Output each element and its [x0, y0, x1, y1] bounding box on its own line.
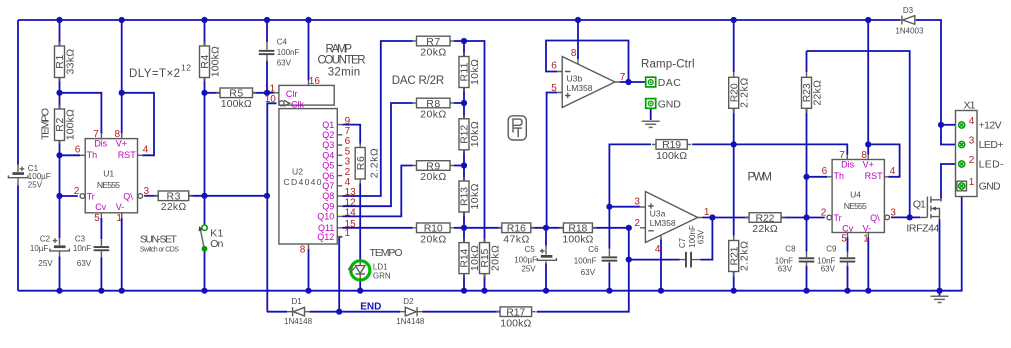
svg-text:6: 6 [822, 166, 828, 177]
svg-text:22kΩ: 22kΩ [752, 223, 778, 235]
svg-text:25V: 25V [521, 265, 536, 274]
svg-text:1N4148: 1N4148 [396, 317, 425, 326]
svg-text:100kΩ: 100kΩ [64, 109, 76, 140]
svg-text:100nF: 100nF [574, 257, 597, 266]
wire R23 feedback branch [806, 51, 808, 218]
resistor R8 [413, 98, 455, 121]
wire C8 branch [806, 218, 808, 291]
resistor R12 [459, 115, 481, 154]
wire U4 V- pin1 to rail [867, 238, 869, 291]
wire U3a pin4 to rail [660, 240, 662, 291]
svg-text:2: 2 [634, 218, 640, 229]
svg-text:8: 8 [571, 48, 577, 59]
svg-text:1: 1 [969, 177, 975, 188]
svg-text:20kΩ: 20kΩ [420, 47, 446, 59]
wire R19 right to R20/R21 node [692, 143, 734, 145]
timer U1 NE555 [74, 129, 150, 224]
svg-text:V-: V- [863, 223, 872, 233]
wire C9 U4 Cv pin5 [847, 238, 849, 291]
svg-text:63V: 63V [581, 268, 596, 277]
wire R3 right to bus [189, 195, 267, 197]
wire +12V top rail [18, 19, 900, 21]
svg-text:20kΩ: 20kΩ [420, 233, 446, 245]
svg-text:4: 4 [655, 244, 661, 255]
svg-text:C6: C6 [588, 245, 599, 254]
svg-text:Th: Th [87, 150, 98, 160]
wire R18 to U3a pin2 [592, 227, 628, 229]
wire U1 V+ pin8 from rail [121, 20, 123, 134]
svg-text:2: 2 [74, 186, 80, 197]
wire C5 branch [545, 228, 547, 291]
counter U2 CD4040 [265, 76, 338, 255]
wire R20 branch [733, 20, 735, 144]
svg-text:1N4003: 1N4003 [895, 27, 924, 36]
svg-text:2.2kΩ: 2.2kΩ [369, 148, 381, 178]
wire U3b output to DAC pad [620, 81, 646, 83]
capacitor C4 [259, 37, 300, 67]
svg-text:20kΩ: 20kΩ [420, 109, 446, 121]
svg-text:Q2: Q2 [322, 130, 334, 140]
wire U3b pin6 feedback [546, 41, 629, 83]
svg-text:PWM: PWM [748, 172, 773, 184]
wire U4 Q pin3 to gate node [891, 216, 920, 218]
svg-text:Ramp-Ctrl: Ramp-Ctrl [641, 59, 695, 71]
capacitor C9 [817, 244, 855, 273]
resistor R6 [355, 144, 381, 184]
svg-text:100kΩ: 100kΩ [562, 233, 593, 245]
wire U2 Clk feed from END bus [267, 103, 276, 311]
wire R7 right to node1 [454, 40, 464, 42]
svg-text:Q7: Q7 [322, 181, 334, 191]
wire U3b pin8 from rail [577, 20, 579, 59]
wire R6 to LED [359, 184, 361, 261]
svg-text:16: 16 [309, 76, 321, 87]
wire left rail through C1 upper [17, 20, 19, 165]
wire U3a output to R22 [702, 217, 749, 219]
wire Tr node to U4 Tr pin2 [807, 217, 825, 219]
svg-text:TEMPO: TEMPO [40, 108, 52, 140]
wire U2 pin16 from rail [308, 20, 310, 80]
wire R19 left to U3a pin3 and C6 [609, 144, 651, 290]
logo PT [508, 116, 526, 140]
svg-text:10nF: 10nF [73, 244, 91, 253]
resistor R18 [559, 223, 596, 246]
svg-text:V+: V+ [116, 139, 127, 149]
svg-text:RST: RST [865, 171, 884, 181]
svg-text:10kΩ: 10kΩ [469, 121, 481, 147]
wire END bus D1 left [267, 311, 287, 313]
wire U1 RST pin4 [122, 93, 154, 156]
svg-text:6: 6 [551, 60, 557, 71]
switch K1 [199, 225, 224, 252]
junction dots top rail [56, 17, 871, 23]
wire D3 cathode to +12V rail right segment [916, 20, 956, 145]
svg-text:Q\: Q\ [870, 213, 880, 223]
svg-text:2: 2 [969, 155, 975, 166]
svg-text:IRFZ44: IRFZ44 [906, 223, 939, 235]
svg-text:10kΩ: 10kΩ [469, 183, 481, 209]
resistor R20 [728, 72, 750, 113]
svg-text:2: 2 [821, 207, 827, 218]
resistor R21 [728, 236, 750, 277]
wire U4 V+ pin8 from rail [867, 20, 869, 155]
svg-text:4: 4 [143, 145, 149, 156]
resistor R15 [479, 239, 501, 278]
wire C2 vertical [59, 196, 61, 291]
resistor R11 [459, 53, 481, 92]
svg-text:Dis: Dis [94, 139, 107, 149]
wire C7 right to U3a output [700, 218, 712, 260]
svg-text:25V: 25V [38, 259, 53, 268]
wire R4/R5 vertical down to K1 [204, 93, 206, 225]
svg-text:Cv: Cv [842, 223, 853, 233]
resistor R7 [413, 36, 455, 59]
svg-text:V-: V- [116, 202, 125, 212]
svg-text:Q1: Q1 [322, 120, 334, 130]
wire R9 right to node3 [454, 165, 464, 167]
LED LD1 [348, 247, 403, 280]
svg-text:Q\: Q\ [123, 191, 133, 201]
capacitor C6 [574, 245, 617, 277]
junction dots op-amps [606, 79, 737, 263]
wire Q1 source to rail [939, 220, 941, 291]
svg-text:63V: 63V [821, 265, 836, 274]
resistor R19 [652, 139, 691, 162]
svg-text:DLY=T×2: DLY=T×2 [129, 68, 180, 80]
resistor R1 [54, 42, 76, 82]
svg-text:5: 5 [551, 83, 557, 94]
svg-text:100kΩ: 100kΩ [500, 317, 531, 329]
wire C4 branch [266, 20, 268, 93]
wire R16 to R18 junction [531, 227, 564, 229]
wire U3a pin3 [609, 206, 640, 208]
svg-text:Th: Th [834, 171, 845, 181]
svg-text:2.2kΩ: 2.2kΩ [739, 78, 751, 108]
svg-text:U1: U1 [103, 168, 114, 178]
svg-text:C7: C7 [678, 237, 687, 248]
svg-text:10kΩ: 10kΩ [469, 59, 481, 85]
svg-text:20kΩ: 20kΩ [489, 245, 501, 271]
svg-text:RAMP: RAMP [326, 43, 353, 55]
wire DAC ladder node column [463, 41, 465, 291]
svg-text:Cv: Cv [95, 202, 106, 212]
svg-text:NE555: NE555 [844, 201, 867, 211]
wire X1 pin4 +12V branch [941, 124, 956, 126]
svg-text:7: 7 [620, 72, 626, 83]
resistor R23 [801, 72, 823, 113]
wire bottom GND rail [18, 290, 940, 292]
wire U3b pin5 to DAC node [547, 93, 558, 228]
svg-text:3: 3 [969, 136, 975, 147]
svg-text:63V: 63V [77, 259, 92, 268]
wire LED cathode to rail [359, 280, 361, 291]
junction dots DAC ladder [461, 38, 632, 231]
svg-text:LED+: LED+ [979, 139, 1004, 151]
wire U2 pin8 to rail [308, 249, 310, 291]
svg-text:U4: U4 [850, 189, 861, 199]
wire C7 row left [629, 259, 680, 261]
svg-text:Q4: Q4 [322, 150, 334, 160]
svg-text:C9: C9 [826, 244, 837, 253]
svg-text:2.2kΩ: 2.2kΩ [739, 241, 751, 271]
svg-text:CD4040: CD4040 [284, 177, 322, 187]
svg-text:C5: C5 [525, 245, 536, 254]
resistor R22 [745, 212, 785, 235]
svg-text:12: 12 [181, 63, 191, 73]
wire K1 bottom to rail [204, 252, 206, 291]
wire Q1 to R6 [342, 125, 360, 144]
svg-text:COUNTER: COUNTER [318, 55, 366, 67]
svg-text:8: 8 [115, 129, 121, 140]
svg-text:NE555: NE555 [97, 180, 120, 190]
svg-text:Tr: Tr [87, 191, 95, 201]
svg-text:5: 5 [841, 234, 847, 245]
svg-text:4: 4 [890, 166, 896, 177]
svg-text:C2: C2 [40, 235, 51, 244]
svg-text:Q3: Q3 [322, 140, 334, 150]
svg-text:100nF: 100nF [277, 48, 300, 57]
svg-text:V+: V+ [863, 159, 874, 169]
resistor R5 [216, 88, 257, 111]
wire END bus D2 to R17 [423, 311, 501, 313]
wire R19 node to U4 Dis pin7 [734, 144, 848, 154]
svg-text:25V: 25V [28, 180, 43, 189]
wire R2 bottom to Tr junction [59, 155, 61, 196]
svg-text:1: 1 [863, 234, 869, 245]
wire U4 RST pin4 [868, 144, 899, 176]
resistor R14 [459, 239, 481, 278]
junction dot END bus [336, 309, 342, 315]
wire Q9 to R8 [342, 103, 412, 206]
wire U4 Th pin6 [807, 176, 828, 178]
svg-text:DAC R/2R: DAC R/2R [392, 75, 445, 87]
op-amp U3a [634, 192, 710, 256]
wire X1 pin2 LED- to Q1 drain [941, 164, 956, 199]
connector X1 [956, 100, 1005, 197]
svg-text:Q5: Q5 [322, 161, 334, 171]
wire C7 node to R17 below rail [537, 260, 629, 312]
counter U2 output pins Q1-Q12 [317, 116, 356, 242]
svg-text:C3: C3 [75, 235, 86, 244]
wire R1/R2 junction to U1 Dis pin7 [60, 93, 102, 134]
capacitor C5 [514, 245, 556, 273]
wire C3 vertical U1 Cv pin5 [100, 218, 102, 291]
svg-text:7: 7 [839, 150, 845, 161]
svg-text:DAC: DAC [658, 77, 681, 89]
wire R4 branch [204, 20, 206, 93]
svg-text:Switch or CDS: Switch or CDS [140, 247, 179, 254]
svg-text:D2: D2 [403, 297, 414, 306]
svg-text:100µF: 100µF [514, 256, 537, 265]
wire Th pin6 [60, 154, 81, 156]
svg-text:33kΩ: 33kΩ [64, 49, 76, 75]
svg-text:Clk: Clk [291, 100, 304, 110]
svg-text:Q8: Q8 [322, 191, 334, 201]
svg-text:63V: 63V [778, 265, 793, 274]
svg-text:Dis: Dis [841, 159, 854, 169]
svg-text:LED-: LED- [979, 159, 1005, 171]
svg-text:D1: D1 [292, 297, 303, 306]
svg-text:1: 1 [345, 228, 351, 239]
svg-text:5: 5 [94, 213, 100, 224]
resistor R17 [496, 307, 535, 330]
op-amp U3b [551, 48, 626, 107]
svg-text:GND: GND [658, 99, 681, 111]
svg-text:32min: 32min [328, 66, 361, 78]
svg-text:GRN: GRN [373, 271, 391, 280]
junction dots bottom rail [56, 288, 942, 294]
svg-text:3: 3 [144, 186, 150, 197]
svg-text:GND: GND [979, 181, 1001, 193]
wire U1 Q pin3 to R3 [144, 195, 158, 197]
svg-text:14: 14 [345, 208, 357, 219]
ground symbol (main rail) [931, 291, 949, 303]
resistor R10 [413, 223, 455, 246]
svg-text:LM358: LM358 [650, 218, 676, 228]
svg-text:C8: C8 [785, 244, 796, 253]
svg-text:U2: U2 [292, 167, 303, 177]
wire R21 branch [733, 144, 735, 290]
test pad DAC [646, 77, 682, 89]
wire GND pad stem [650, 109, 652, 120]
timer U4 NE555 [821, 150, 897, 245]
resistor R2 [54, 105, 76, 145]
svg-text:8: 8 [300, 245, 306, 256]
svg-text:47kΩ: 47kΩ [503, 233, 529, 245]
wire END bus D1 to D2 [310, 311, 401, 313]
svg-text:8: 8 [861, 150, 867, 161]
capacitor C1 [8, 164, 50, 190]
svg-text:3: 3 [634, 197, 640, 208]
svg-text:Tr: Tr [834, 213, 842, 223]
ground symbol (GND pad) [642, 121, 660, 127]
svg-text:3: 3 [890, 207, 896, 218]
wire R5 row [205, 92, 274, 94]
svg-text:Q6: Q6 [322, 171, 334, 181]
junction dots PWM section [803, 122, 944, 221]
wire Tr pin2 [60, 195, 78, 197]
resistor R9 [413, 160, 455, 183]
wire R2 body [59, 93, 61, 156]
diode D2 [396, 297, 425, 326]
svg-text:100kΩ: 100kΩ [221, 98, 252, 110]
svg-text:Clr: Clr [286, 89, 298, 99]
resistor R4 [199, 42, 221, 82]
capacitor C8 [775, 244, 815, 273]
svg-text:U3a: U3a [650, 208, 666, 218]
svg-text:22kΩ: 22kΩ [161, 201, 187, 213]
resistor R13 [459, 177, 481, 216]
wire Q10 to R9 [342, 166, 412, 217]
svg-text:1N4148: 1N4148 [284, 317, 313, 326]
svg-text:U3b: U3b [567, 73, 583, 83]
svg-text:LD1: LD1 [373, 262, 388, 271]
wire Q12 to END bus [339, 237, 342, 312]
svg-text:7: 7 [93, 129, 99, 140]
svg-text:Q12: Q12 [317, 232, 334, 242]
svg-text:63V: 63V [696, 229, 705, 244]
wire Q11 to R10 [342, 227, 412, 229]
svg-text:SUN-SET: SUN-SET [140, 234, 178, 246]
svg-text:D3: D3 [903, 6, 914, 15]
wire U3a pin2 down to C7 node [628, 228, 630, 260]
resistor R16 [498, 223, 535, 246]
resistor R3 [154, 191, 193, 214]
wire U4 output feedback row [807, 51, 910, 217]
svg-text:Q1: Q1 [913, 198, 926, 210]
svg-text:Q9: Q9 [322, 201, 334, 211]
svg-text:100kΩ: 100kΩ [656, 150, 687, 162]
wire X1 pin1 GND to rail [940, 191, 962, 291]
svg-text:20kΩ: 20kΩ [420, 171, 446, 183]
svg-text:4: 4 [969, 116, 975, 127]
wire U1 V- pin1 to rail [121, 218, 123, 291]
svg-text:END: END [360, 302, 381, 313]
svg-text:10µF: 10µF [30, 244, 49, 253]
svg-text:LM358: LM358 [567, 83, 593, 93]
svg-text:22kΩ: 22kΩ [811, 80, 823, 106]
svg-text:63V: 63V [277, 58, 292, 67]
capacitor C3 [73, 235, 109, 269]
svg-text:TEMPO: TEMPO [370, 247, 403, 259]
wire DAC output row R10 to R16 [454, 227, 502, 229]
svg-text:1: 1 [704, 207, 710, 218]
capacitor C7 [678, 225, 705, 267]
svg-text:100kΩ: 100kΩ [209, 46, 221, 77]
svg-text:+12V: +12V [979, 120, 1002, 132]
wire R22 to Tr node [781, 217, 807, 219]
svg-text:RST: RST [118, 150, 137, 160]
svg-text:X1: X1 [964, 100, 976, 112]
wire R8 right to node2 [454, 102, 464, 104]
wire R1 branch [59, 20, 61, 93]
wire node1 to R15 terminator [464, 41, 485, 291]
svg-text:6: 6 [75, 145, 81, 156]
capacitor C2 [30, 235, 70, 269]
wire left rail through C1 lower [17, 186, 19, 291]
svg-text:On: On [210, 238, 223, 250]
diode D1 [284, 297, 313, 326]
MOSFET Q1 IRFZ44 [906, 196, 941, 234]
svg-text:Q10: Q10 [317, 212, 334, 222]
diode D3 [895, 6, 924, 36]
test pad GND [646, 99, 682, 111]
junction dots U1 section [56, 90, 270, 199]
svg-text:1: 1 [116, 213, 122, 224]
svg-text:R6: R6 [355, 156, 367, 170]
svg-text:C4: C4 [277, 37, 288, 46]
wire Q8 to R7 [342, 41, 412, 196]
